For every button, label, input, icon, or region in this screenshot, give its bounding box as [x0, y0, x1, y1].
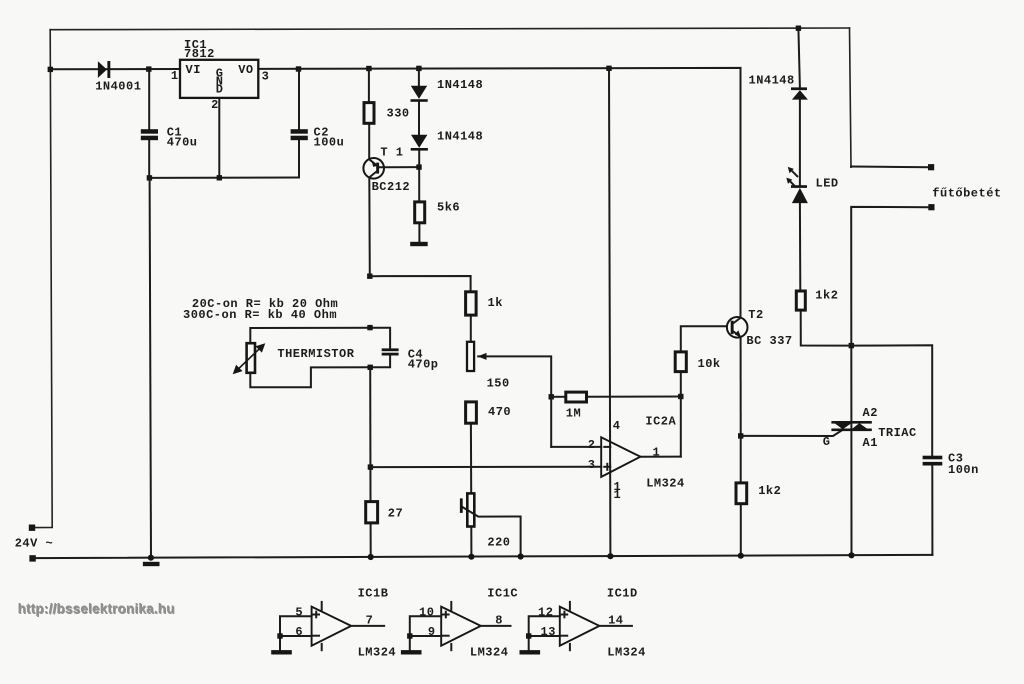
- svg-text:330: 330: [387, 107, 410, 121]
- wire emitter 1k2 to rail: [740, 436, 742, 556]
- resistor 27: [366, 502, 378, 523]
- node LED chain top: [796, 26, 801, 31]
- label 5k6 value: [437, 201, 460, 215]
- node 330 top: [366, 66, 371, 71]
- svg-text:T 1: T 1: [380, 146, 403, 160]
- label IC1C designator: [487, 586, 518, 600]
- wire ground drop from C1 bus to rail: [150, 178, 151, 558]
- svg-text:IC1B: IC1B: [358, 586, 389, 600]
- wire C3 branch: [851, 345, 932, 555]
- terminal 24V upper: [29, 525, 35, 531]
- wire noninverting input pin3: [370, 466, 601, 468]
- resistor 5k6: [415, 202, 425, 223]
- svg-text:7812: 7812: [184, 47, 215, 61]
- svg-text:VI: VI: [186, 63, 201, 77]
- svg-text:D: D: [216, 83, 224, 97]
- trimmer 220: [460, 493, 474, 526]
- wire 1M right lead to feedback node: [588, 396, 681, 398]
- label 330 value: [387, 107, 410, 121]
- node C2 top: [296, 66, 301, 71]
- wire 10k top to T2 base: [681, 326, 727, 350]
- svg-text:VO: VO: [238, 63, 253, 77]
- node IC1C input junction: [407, 633, 412, 638]
- node rail 220 left: [468, 554, 474, 560]
- diode D3 1N4148: [411, 135, 428, 151]
- label IC1B type: [358, 645, 397, 659]
- wire top supply rail: [50, 28, 849, 30]
- resistor 10k: [675, 352, 686, 372]
- svg-text:IC1D: IC1D: [607, 586, 638, 600]
- op-amp IC1D triangle: [560, 602, 600, 650]
- svg-text:470u: 470u: [167, 136, 198, 150]
- op-amp IC1C triangle: [441, 602, 481, 650]
- wire 1k to 150 trimmer: [470, 317, 472, 341]
- label T2 designator: [748, 308, 763, 322]
- node rail 1k2: [738, 553, 744, 559]
- capacitor C1 470u: [141, 129, 158, 140]
- label 24V input: [15, 537, 54, 551]
- wire C1 branch vertical: [148, 69, 150, 178]
- svg-text:10: 10: [419, 605, 434, 619]
- label 150 value: [487, 377, 510, 391]
- triac body: [831, 421, 871, 431]
- node diode chain top: [416, 66, 421, 71]
- svg-text:14: 14: [608, 614, 623, 628]
- node feedback junction: [678, 394, 683, 399]
- thermistor body: [233, 343, 266, 374]
- node T1 base junction: [416, 164, 421, 169]
- label D4 value: [749, 74, 795, 88]
- node ground bus left: [147, 175, 152, 180]
- svg-text:1: 1: [171, 69, 179, 83]
- op IC1 7812 regulator body: [180, 60, 258, 98]
- node rail opamp power: [607, 553, 613, 559]
- wire 150 wiper to inverting node: [478, 356, 551, 447]
- svg-text:1: 1: [653, 445, 661, 459]
- svg-text:IC1C: IC1C: [487, 586, 518, 600]
- label T2 type: [746, 334, 792, 348]
- label IC2A type: [646, 477, 685, 491]
- svg-text:470p: 470p: [408, 358, 439, 372]
- svg-text:27: 27: [388, 506, 403, 520]
- svg-text:LM324: LM324: [607, 645, 646, 659]
- wire mid vertical sense node: [369, 367, 372, 557]
- svg-text:8: 8: [495, 614, 503, 628]
- capacitor C2 100u: [291, 129, 308, 140]
- node rail triac: [848, 552, 854, 558]
- label IC2A pins: [588, 419, 660, 502]
- op-amp IC1B triangle: [312, 602, 352, 650]
- label C3 value: [948, 451, 979, 477]
- label IC1B designator: [358, 586, 389, 600]
- node bridge top: [367, 274, 372, 279]
- label 1M value: [566, 407, 581, 421]
- node IC1B input junction: [277, 633, 282, 638]
- svg-text:3: 3: [262, 69, 270, 83]
- label 1k2 led chain value: [815, 288, 838, 302]
- terminal heater upper: [928, 164, 934, 170]
- label heater load: [932, 186, 1001, 200]
- label IC1D pins: [538, 605, 624, 639]
- wire regulator ground bus: [149, 99, 299, 178]
- node triac top C3 junction: [849, 343, 854, 348]
- svg-text:G: G: [823, 435, 831, 449]
- node rail sense: [368, 554, 374, 560]
- svg-text:A2: A2: [863, 406, 878, 420]
- wire T1 collector down to bridge: [368, 178, 371, 277]
- svg-text:LM324: LM324: [470, 645, 509, 659]
- svg-text:THERMISTOR: THERMISTOR: [277, 347, 354, 361]
- svg-text:1N4148: 1N4148: [749, 74, 795, 88]
- svg-text:1k2: 1k2: [758, 484, 781, 498]
- ground below 5k6: [410, 242, 428, 246]
- node inverting 1M junction: [549, 394, 554, 399]
- resistor 1M: [566, 392, 587, 402]
- svg-text:2: 2: [588, 438, 596, 452]
- label 220 value: [487, 536, 510, 550]
- label 1k value: [488, 296, 503, 310]
- svg-text:1k: 1k: [488, 296, 503, 310]
- node ground bus IC1 pin2: [217, 175, 222, 180]
- transistor T2 BC337: [727, 317, 748, 338]
- wire LED chain bottom to triac node: [801, 312, 852, 346]
- svg-text:470: 470: [488, 405, 511, 419]
- svg-text:TRIAC: TRIAC: [878, 426, 917, 440]
- resistor 1k2 emitter: [736, 483, 747, 504]
- node IC1D input junction: [526, 633, 531, 638]
- terminal 24V lower: [29, 555, 35, 561]
- svg-text:1N4001: 1N4001: [95, 80, 141, 94]
- label IC1B pins: [295, 605, 373, 639]
- label thermistor: [277, 347, 354, 361]
- diode D4 1N4148 led chain: [791, 87, 808, 99]
- svg-text:6: 6: [295, 625, 303, 639]
- resistor 470: [466, 402, 477, 423]
- node rail 220 wiper: [518, 553, 524, 559]
- label C2 value: [314, 126, 345, 150]
- wire drop to heater terminal upper: [850, 28, 852, 167]
- label D1 value: [95, 80, 141, 94]
- ground rail symbol: [143, 562, 160, 566]
- wire IC1D output pin14: [599, 625, 632, 627]
- trimmer 150: [467, 342, 487, 371]
- wire thermistor node top: [250, 328, 390, 349]
- terminal heater lower: [928, 204, 934, 210]
- wire 330 to T1 emitter: [368, 69, 370, 160]
- svg-text:3: 3: [588, 458, 596, 472]
- node opamp power top: [606, 66, 611, 71]
- wire IC1C output pin8: [481, 625, 511, 627]
- label 27 value: [388, 506, 403, 520]
- svg-text:T2: T2: [748, 308, 763, 322]
- svg-text:BC212: BC212: [372, 180, 411, 194]
- node C1 top: [146, 66, 151, 71]
- svg-text:5: 5: [295, 605, 303, 619]
- svg-text:10k: 10k: [698, 357, 721, 371]
- diode D2 1N4148: [411, 86, 428, 102]
- watermark site url: [18, 601, 176, 617]
- label 470 value: [488, 405, 511, 419]
- node noninverting tap: [368, 464, 373, 469]
- svg-text:A1: A1: [863, 436, 878, 450]
- wire ground rail: [33, 555, 933, 558]
- node T2 emitter gate junction: [738, 433, 743, 438]
- svg-text:12: 12: [538, 605, 553, 619]
- resistor 1k: [466, 292, 477, 315]
- wire opamp power vertical pins 4 and 11: [609, 68, 610, 556]
- wire load terminal lower to triac: [851, 207, 929, 555]
- transistor T1 BC212: [363, 158, 384, 179]
- wire IC1C inputs tied: [410, 616, 441, 650]
- svg-text:LM324: LM324: [358, 645, 397, 659]
- svg-text:220: 220: [487, 536, 510, 550]
- ground IC1B: [271, 650, 292, 654]
- node thermistor bottom junction: [368, 365, 373, 370]
- wire 220 wiper tap to rail: [462, 507, 520, 557]
- label 10k value: [698, 357, 721, 371]
- wire T1 base: [379, 166, 419, 168]
- diode D1 1N4001: [98, 61, 110, 78]
- LED indicator: [786, 167, 808, 203]
- wire inverting input pin2: [551, 446, 601, 448]
- svg-text:24V ~: 24V ~: [15, 537, 54, 551]
- svg-text:LM324: LM324: [646, 477, 685, 491]
- node supply at left border: [48, 67, 53, 72]
- svg-text:13: 13: [541, 625, 556, 639]
- label T1 type: [372, 180, 411, 194]
- svg-text:9: 9: [428, 625, 436, 639]
- label T1 designator: [380, 146, 403, 160]
- capacitor C4 470p: [382, 348, 399, 355]
- wire thermistor node bottom staircase: [250, 355, 390, 387]
- label C4 value: [408, 347, 439, 371]
- svg-text:1N4148: 1N4148: [437, 130, 483, 144]
- wire opamp output pin1: [640, 456, 680, 458]
- label IC2A designator: [645, 414, 676, 428]
- svg-text:100u: 100u: [314, 136, 345, 150]
- node thermistor top junction: [367, 325, 372, 330]
- label triac: [878, 426, 917, 440]
- svg-text:IC2A: IC2A: [645, 414, 676, 428]
- svg-text:2: 2: [211, 98, 219, 112]
- label D2 value: [437, 78, 483, 92]
- wire 1M left lead: [551, 396, 564, 398]
- resistor 1k2 led chain: [796, 291, 805, 310]
- svg-text:fűtőbetét: fűtőbetét: [932, 186, 1001, 200]
- capacitor C3 100n: [923, 456, 943, 466]
- svg-text:4: 4: [613, 419, 621, 433]
- svg-text:300C-on R= kb 40 Ohm: 300C-on R= kb 40 Ohm: [183, 308, 337, 322]
- wire LED chain top drop: [798, 28, 800, 289]
- label IC1C type: [470, 645, 509, 659]
- svg-text:7: 7: [366, 614, 374, 628]
- label IC1D designator: [607, 586, 638, 600]
- label IC1 designator: [184, 38, 215, 61]
- label IC1C pins: [419, 605, 503, 639]
- resistor 330: [364, 103, 374, 124]
- svg-text:1N4148: 1N4148: [437, 78, 483, 92]
- wire IC1B inputs tied: [280, 616, 312, 650]
- wire 470 down to 220: [470, 425, 473, 557]
- label IC1D type: [607, 645, 646, 659]
- svg-text:1M: 1M: [566, 407, 581, 421]
- svg-text:http://bsselektronika.hu: http://bsselektronika.hu: [18, 601, 175, 616]
- label D3 value: [437, 130, 483, 144]
- wire left border from 24V terminal up: [35, 30, 52, 528]
- note thermistor resistance: [183, 297, 338, 322]
- label LED: [816, 176, 839, 190]
- ground IC1D: [520, 650, 541, 654]
- svg-text:5k6: 5k6: [437, 201, 460, 215]
- label IC1 pins: [171, 63, 269, 112]
- svg-text:LED: LED: [816, 176, 839, 190]
- wire T2 emitter down: [740, 337, 742, 436]
- wire diode reference chain vertical: [418, 68, 421, 242]
- wire gate drive to triac: [741, 430, 843, 436]
- wire IC1D inputs tied: [529, 616, 560, 650]
- wire feedback node to 10k and output: [680, 373, 682, 457]
- node rail ground: [148, 555, 154, 561]
- svg-text:BC 337: BC 337: [746, 334, 792, 348]
- svg-text:1: 1: [614, 488, 622, 502]
- wire main rectified supply: [50, 68, 740, 318]
- svg-text:1k2: 1k2: [815, 288, 838, 302]
- wire IC1B output pin7: [351, 625, 384, 627]
- label triac pins: [823, 406, 878, 450]
- svg-text:150: 150: [487, 377, 510, 391]
- op-amp IC2A triangle: [601, 437, 640, 477]
- wire bridge top horizontal to 1k: [370, 276, 471, 290]
- ground IC1C: [401, 650, 422, 654]
- label C1 value: [167, 126, 198, 150]
- wire load terminal upper: [851, 166, 929, 169]
- wire C2 branch vertical: [298, 69, 300, 178]
- label 1k2 emitter value: [758, 484, 781, 498]
- svg-text:100n: 100n: [948, 463, 979, 477]
